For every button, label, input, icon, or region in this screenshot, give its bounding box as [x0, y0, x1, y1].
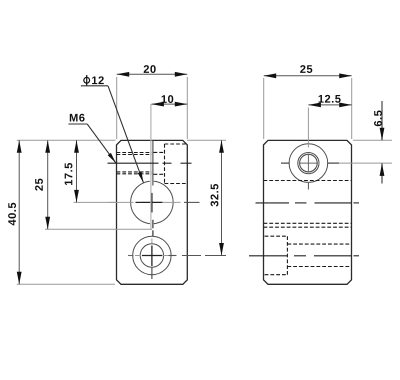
extension line top left — [17, 139, 116, 141]
extension line bottom left — [17, 283, 115, 285]
lower through hole hidden lines — [287, 243, 351, 245]
dimension 25 top side view extensions — [263, 78, 265, 139]
front view plate outline — [117, 140, 188, 284]
dimension 17.5 — [76, 140, 78, 202]
dimension 32.5 — [221, 140, 223, 255]
phi12 horizontal centerline — [109, 201, 134, 203]
lower hole horizontal centerline — [128, 255, 134, 257]
dimension 20 extension lines — [116, 77, 118, 139]
counterbore hole outer circle — [133, 236, 171, 274]
phi12 vertical centerline / slit left edge — [150, 104, 152, 229]
M6 counterbore circle — [289, 144, 328, 183]
M6 horizontal centerline — [281, 162, 290, 164]
slit gap erases circle top and bottom — [150, 180, 154, 184]
side view outline — [264, 140, 352, 284]
dimension 10 — [151, 103, 187, 105]
phi12 leader line — [81, 85, 108, 87]
hole phi12 circle — [131, 181, 174, 224]
dimension 6.5 — [381, 101, 383, 140]
lower hole centerline in side view — [249, 255, 287, 257]
M6 hole centerline — [108, 162, 159, 164]
counterbore hole inner circle — [140, 244, 163, 267]
dimension 20 — [117, 73, 188, 75]
M6 vertical centerline — [307, 108, 309, 148]
dimension 6.5 extension lines — [353, 139, 392, 141]
M6 leader line — [68, 123, 87, 125]
M6 side hole hidden lines upper — [117, 152, 152, 154]
extension line 25 left — [45, 228, 152, 230]
lower hole centerline extension right — [169, 255, 177, 257]
dimension 12.5 — [308, 104, 351, 106]
slit bottom hidden line — [264, 226, 352, 228]
slit right edge below hole — [152, 220, 154, 229]
extension line 17.5 — [74, 201, 117, 203]
thread hidden dashes mid — [154, 151, 165, 153]
M6 centerline extension to 6.5 dim — [339, 162, 392, 164]
phi12 hole hidden line top — [264, 180, 352, 182]
M6 crosshair — [299, 162, 318, 164]
dimension 25 top side view — [264, 75, 352, 77]
phi12 crosshair — [142, 201, 162, 203]
lower hole vertical centerline — [151, 239, 153, 244]
dimension 40.5 — [18, 140, 20, 284]
dimension 32.5 extension top — [187, 139, 226, 141]
M6 side hole hidden lines lower — [117, 171, 152, 173]
phi12 centerline in side view — [256, 202, 290, 204]
label M6 text — [70, 114, 85, 122]
label phi12 symbol — [84, 77, 90, 83]
phi12 hole hidden line bottom — [264, 222, 352, 224]
counterbore hidden rectangle right — [164, 144, 166, 184]
lower hole crosshair — [142, 255, 163, 257]
M6 thread crest circle — [298, 153, 319, 174]
M6 drill circle — [300, 154, 318, 172]
lower counterbore hidden rectangle — [265, 235, 288, 237]
dimension 25 left — [47, 140, 49, 229]
slit right edge line above hole — [152, 140, 154, 185]
label phi12 text — [92, 76, 104, 84]
